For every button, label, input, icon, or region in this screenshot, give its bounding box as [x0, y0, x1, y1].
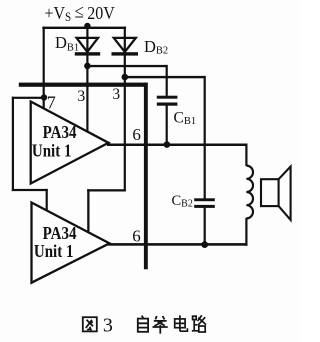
caption char Ju (lift) [153, 316, 168, 334]
wire output2 [108, 243, 248, 246]
wire CB2 lower lead [204, 208, 206, 246]
wire DB2 step horizontal to U2 input [87, 189, 126, 191]
wire bypass step vertical into U2 [46, 189, 48, 211]
wire speaker top lead [245, 144, 247, 167]
svg-text:PA34: PA34 [43, 121, 77, 142]
speaker LS [261, 167, 291, 220]
node DB2 cathode junction dot [122, 74, 129, 81]
caption char Tu (figure) [83, 317, 97, 331]
svg-text:CB1: CB1 [174, 110, 197, 128]
svg-text:Unit 1: Unit 1 [34, 240, 74, 261]
node +Vs rail junction dot [84, 23, 90, 29]
wire speaker bottom lead [245, 218, 247, 246]
wire +Vs top rail [42, 27, 126, 29]
wire bypass step horizontal [12, 189, 48, 191]
wire CB1 upper lead [166, 65, 168, 96]
wire DB2 cathode to CB2 [125, 76, 205, 78]
svg-text:6: 6 [132, 125, 141, 144]
svg-text:3: 3 [103, 315, 113, 337]
inductor voice coil [246, 166, 253, 219]
wire DB1 branch vertical [86, 27, 88, 132]
svg-text:+VS ≤ 20V: +VS ≤ 20V [45, 1, 116, 24]
svg-text:DB2: DB2 [144, 37, 168, 57]
svg-text:3: 3 [77, 88, 85, 105]
bus thick horizontal rail [19, 83, 148, 87]
op-amp U2 triangle [32, 203, 110, 283]
wire DB2 step vertical into U2 pin 3 [87, 189, 89, 232]
svg-text:7: 7 [47, 92, 56, 112]
wire left bypass vertical [12, 97, 14, 191]
wire pin7 horizontal [12, 97, 45, 99]
capacitor CB2 [194, 198, 215, 208]
diode DB2 [112, 38, 139, 56]
bus thick vertical rail [144, 83, 148, 270]
wire DB1 cathode to CB1 [87, 65, 166, 67]
wire output1 [107, 144, 248, 147]
node output2 CB2 junction dot [201, 241, 208, 248]
wire +Vs left supply drop [43, 27, 45, 109]
node output1 CB1 junction dot [164, 141, 171, 148]
wire CB1 lower lead [166, 106, 168, 145]
op-amp U1 triangle [31, 102, 109, 184]
svg-text:3: 3 [112, 86, 120, 103]
wire CB2 upper lead [204, 76, 206, 199]
caption char Zi (self) [138, 316, 148, 332]
capacitor CB1 [157, 96, 178, 106]
diode DB1 [75, 38, 100, 56]
node DB1 cathode junction dot [84, 63, 91, 70]
wire DB2 branch vertical [124, 27, 126, 191]
svg-text:Unit 1: Unit 1 [32, 140, 72, 161]
caption char Lu (road) [192, 315, 206, 332]
caption char Dian (electric) [175, 315, 188, 331]
svg-text:CB2: CB2 [172, 193, 193, 210]
node pin7 junction dot [41, 94, 47, 100]
svg-text:6: 6 [132, 226, 141, 245]
svg-text:DB1: DB1 [55, 33, 79, 53]
